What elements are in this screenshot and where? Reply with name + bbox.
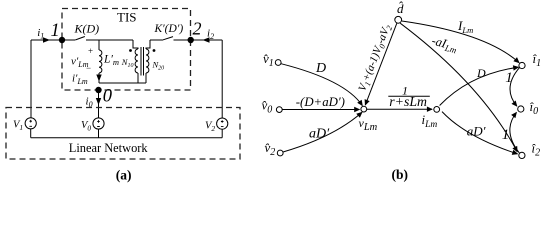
svg-text:i2: i2 [207,27,214,41]
svg-text:TIS: TIS [117,10,137,25]
svg-text:V1: V1 [13,120,23,133]
svg-text:î1: î1 [533,51,542,69]
svg-text:i1: i1 [37,27,44,41]
svg-text:iLm: iLm [422,112,438,130]
svg-text:î0: î0 [530,99,539,117]
svg-text:(b): (b) [392,167,409,182]
svg-text:V0: V0 [81,120,91,133]
svg-text:0: 0 [103,86,113,106]
svg-text:v̂0: v̂0 [262,98,273,116]
svg-text:v̂1: v̂1 [263,51,274,69]
svg-text:1: 1 [51,21,60,41]
svg-text:1: 1 [505,70,513,86]
svg-text:D: D [476,66,486,80]
svg-text:-aILm: -aILm [430,33,460,55]
svg-text:K′(D′): K′(D′) [154,23,184,35]
svg-text:N20: N20 [152,59,165,71]
svg-text:V2: V2 [205,120,215,133]
svg-text:K(D): K(D) [74,21,100,35]
svg-text:(a): (a) [116,168,132,183]
svg-text:i′Lm: i′Lm [72,73,88,87]
svg-text:Linear Network: Linear Network [69,141,149,155]
svg-text:L′m: L′m [103,54,119,68]
svg-text:-(D+aD′): -(D+aD′) [296,95,345,109]
svg-text:2: 2 [193,19,202,39]
svg-text:d̂: d̂ [397,1,404,16]
svg-text:D: D [315,61,326,76]
svg-text:aD′: aD′ [309,126,330,141]
svg-text:i0: i0 [86,96,93,110]
svg-text:î2: î2 [532,141,541,159]
svg-text:1: 1 [502,127,510,143]
svg-text:aD′: aD′ [467,123,486,138]
svg-text:+: + [88,46,93,56]
svg-text:v̂2: v̂2 [265,140,276,158]
svg-text:ILm: ILm [457,18,473,35]
svg-text:vLm: vLm [359,116,378,133]
svg-text:V1+(a-1)V0-aV2: V1+(a-1)V0-aV2 [356,23,394,94]
svg-text:N10: N10 [121,57,134,69]
svg-text:r+sLm: r+sLm [389,94,427,109]
svg-text:−: − [86,63,91,73]
